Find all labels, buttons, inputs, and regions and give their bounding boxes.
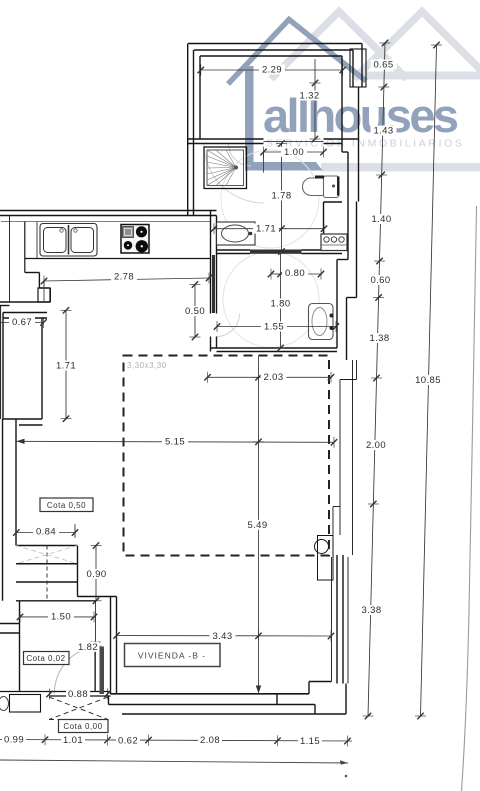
svg-text:10.85: 10.85: [415, 375, 441, 386]
accessibility circle bathroom 1: [221, 150, 319, 248]
door arc bathroom 1: [204, 144, 264, 204]
closet room left wall: [2, 313, 4, 420]
arrowhead 5.49 bottom: [256, 686, 261, 694]
wall step y152: [342, 151, 348, 153]
wall step d: [49, 288, 51, 302]
kitchen wall face line: [9, 216, 11, 303]
bottom wall inner right: [309, 681, 332, 683]
column box: [38, 288, 50, 302]
living right wall line2: [336, 555, 338, 684]
terrace inner top wall: [194, 49, 353, 51]
bath2 right inner wall: [336, 260, 338, 349]
survey dot: [345, 775, 348, 778]
logo light roof A: [271, 12, 407, 80]
washbasin 2 taps: [330, 314, 334, 318]
living room left wall b: [116, 597, 118, 695]
dim chain bottom: [0, 740, 352, 742]
svg-text:3,30x3,30: 3,30x3,30: [127, 361, 167, 370]
entrance dashed X: [49, 697, 108, 720]
dim line 1.71 hall: [214, 228, 324, 230]
terrace right inner wall: [341, 56, 343, 152]
neighbour wc oval: [0, 697, 9, 711]
dim line 2.78: [44, 278, 209, 281]
washbasin 2 counter: [309, 304, 334, 340]
right outer wall upper: [358, 87, 360, 202]
dim line 1.50: [20, 616, 97, 618]
plan left edge line: [0, 305, 2, 419]
shaft box top right: [350, 49, 366, 87]
hall left wall: [19, 601, 21, 692]
terrace outer top wall: [188, 43, 362, 45]
bath left wall corner a: [210, 337, 212, 352]
dim line 1.00: [264, 151, 324, 153]
svg-text:1.82: 1.82: [78, 642, 98, 653]
bath2 top wall left b: [217, 253, 251, 255]
svg-text:Cota 0,02: Cota 0,02: [26, 654, 65, 663]
svg-text:0.99: 0.99: [4, 735, 24, 746]
washbasin 1 cabinet: [217, 222, 256, 245]
Cota 0,50 box: [40, 498, 93, 512]
logo numeral 1 mark: [245, 66, 323, 171]
Cota 0,02 box: [24, 652, 70, 665]
sink divider: [68, 225, 70, 255]
left outer wall: [187, 44, 189, 216]
svg-text:Cota 0,50: Cota 0,50: [47, 501, 86, 510]
svg-text:1.43: 1.43: [373, 126, 393, 137]
svg-text:0.90: 0.90: [86, 569, 106, 580]
svg-text:2.29: 2.29: [262, 65, 282, 76]
entrance door leaf: [100, 647, 105, 695]
bath left wall inner: [216, 216, 218, 314]
logo dark roof: [228, 20, 366, 85]
sink basin right: [71, 228, 94, 253]
boundary arrow line bottom: [0, 760, 348, 763]
stair tread 1: [16, 545, 78, 547]
svg-text:3.43: 3.43: [212, 631, 232, 642]
mid right wall inner2: [332, 507, 334, 557]
bottom step v1: [276, 694, 278, 705]
dim line 2.03: [208, 376, 332, 378]
dim line 1.71 left: [65, 310, 67, 418]
closet room top wall a: [3, 312, 47, 314]
terrace bottom wall right inner: [324, 143, 343, 145]
mid right wall outer: [352, 360, 354, 555]
niche box: [318, 536, 334, 581]
terrace bottom wall left outer: [188, 138, 264, 140]
dimension labels: [2, 60, 443, 748]
terrace inner rail line left: [199, 56, 201, 139]
ticks horizontal dims: [198, 65, 204, 76]
svg-text:0.62: 0.62: [118, 736, 138, 747]
svg-text:1.78: 1.78: [271, 191, 291, 202]
bottom wall step up a: [308, 682, 310, 694]
stair bottom wall: [16, 600, 96, 602]
svg-text:1.00: 1.00: [284, 147, 304, 158]
svg-text:2.78: 2.78: [114, 272, 134, 283]
svg-text:0.60: 0.60: [370, 275, 390, 286]
svg-text:VIVIENDA -B -: VIVIENDA -B -: [138, 651, 206, 661]
stair X dashes: [16, 546, 78, 564]
dim line 5.15: [17, 441, 335, 442]
bath2 bottom wall b: [217, 351, 338, 353]
svg-text:5.49: 5.49: [247, 520, 267, 531]
mid right wall inner: [339, 380, 341, 536]
logo light band lower right: [321, 163, 480, 172]
stair left outer wall: [2, 419, 4, 601]
toilet 1 button: [332, 185, 335, 188]
living right wall line1: [331, 557, 333, 682]
wall step y259: [337, 259, 348, 261]
toilet 1 dark top bar: [315, 176, 324, 179]
terrace right mid wall: [352, 50, 354, 87]
living room left wall a: [110, 597, 112, 695]
kitchen counter back line: [1, 221, 211, 223]
dim line 2.29: [201, 69, 343, 71]
wall step under closet room: [19, 424, 43, 426]
dim line 1.55: [217, 326, 336, 328]
terrace right outer wall: [361, 44, 363, 88]
door arc shower room: [229, 144, 252, 167]
closet room top wall b: [3, 317, 47, 319]
stair tread 2: [16, 563, 78, 565]
closet wall vertical: [323, 202, 325, 234]
dim line 0.50: [194, 285, 196, 338]
svg-text:0.84: 0.84: [36, 527, 56, 538]
door jamb line: [95, 601, 97, 692]
dim line right chain: [368, 43, 385, 716]
svg-text:5.15: 5.15: [165, 437, 185, 448]
svg-text:0.65: 0.65: [373, 60, 393, 71]
svg-text:1.55: 1.55: [264, 322, 284, 333]
svg-text:2.08: 2.08: [200, 735, 220, 746]
stair right edge: [77, 546, 79, 597]
svg-text:1.80: 1.80: [270, 299, 290, 310]
dim line 5.49: [258, 356, 260, 694]
shower tray outer: [204, 147, 247, 189]
niche column circle: [315, 540, 329, 554]
closet room bottom wall: [3, 418, 42, 420]
kitchen top wall inner: [0, 215, 217, 217]
living right wall line4: [347, 557, 349, 684]
dim line 0.90: [95, 546, 97, 601]
door sill thin line: [264, 141, 324, 143]
entrance threshold top: [0, 691, 111, 693]
right inner wall bath1: [347, 152, 349, 260]
svg-text:0.50: 0.50: [185, 306, 205, 317]
dim line 0.80: [271, 273, 321, 275]
kitchen top wall outer: [0, 210, 217, 212]
right outer wall lower: [346, 298, 348, 361]
svg-text:allhouses: allhouses: [263, 89, 458, 142]
watermark logo allhouses: [228, 12, 480, 172]
bottom right corner vertical: [345, 684, 347, 715]
kitchen sink unit: [40, 224, 97, 257]
dim line 1.78-1.80 vertical: [281, 144, 283, 252]
neighbour wall a: [0, 623, 20, 625]
right outer wall mid: [356, 202, 358, 298]
svg-text:3.38: 3.38: [361, 605, 381, 616]
mid right wall step2: [333, 506, 340, 508]
stove burner circles: [136, 226, 147, 237]
dim line 0.84: [16, 532, 75, 534]
wall step c: [39, 287, 50, 289]
dashed square 3.30x3.30: [124, 356, 330, 556]
living right wall line3: [342, 555, 344, 684]
bath2 top wall right a: [302, 249, 343, 251]
wall step a: [25, 272, 40, 274]
wall y302: [0, 301, 50, 303]
VIVIENDA B box: [125, 644, 221, 667]
boundary curve right: [462, 206, 477, 791]
svg-text:0.80: 0.80: [285, 268, 305, 279]
stove burner square: [123, 227, 134, 238]
bottom step v2: [314, 705, 316, 715]
dim line 1.82: [94, 642, 96, 691]
svg-text:2.03: 2.03: [263, 372, 283, 383]
closet room right wall: [41, 318, 43, 419]
bath left wall outer: [210, 211, 212, 314]
neighbour cabinet rect: [10, 695, 41, 713]
stair tread 3: [16, 581, 78, 583]
wall step y297: [347, 297, 357, 299]
bath2 bottom wall a: [211, 347, 338, 349]
shower rays: [207, 150, 236, 186]
terrace bottom wall left inner: [188, 143, 264, 145]
terrace inner rail line top: [200, 55, 342, 57]
sink basin left: [44, 228, 67, 253]
bottom outer line 3: [122, 713, 346, 715]
kitchen counter front: [25, 258, 211, 260]
logo light roof B: [354, 12, 480, 80]
Cota 0,00 box: [59, 720, 109, 733]
living room bottom wall main: [111, 693, 310, 695]
bottom outer line 2: [109, 704, 316, 706]
closet wall under toilet: [324, 201, 343, 203]
washbasin 1 tap: [249, 232, 253, 236]
kitchen cabinet left edge: [24, 222, 26, 273]
svg-text:1.15: 1.15: [300, 736, 320, 747]
toilet 1 tank: [324, 176, 339, 198]
washbasin 2 bowl: [312, 308, 327, 336]
svg-text:1.32: 1.32: [299, 91, 319, 102]
svg-text:1.01: 1.01: [63, 735, 83, 746]
stove unit: [121, 225, 149, 254]
left inner wall: [193, 50, 195, 216]
svg-text:0.88: 0.88: [68, 689, 88, 700]
svg-text:1.50: 1.50: [51, 612, 71, 623]
bath2 door sill dark: [250, 250, 302, 254]
stair centerline dashed: [46, 546, 48, 601]
arrowhead 5.15 left: [17, 439, 25, 444]
terrace bottom wall right outer: [324, 138, 359, 140]
wall step b: [38, 273, 40, 289]
appliance box: [321, 234, 347, 251]
bath2 top wall right b: [302, 253, 343, 255]
shower drain dot: [234, 166, 238, 170]
neighbour wall b: [0, 632, 20, 634]
sink taps: [60, 229, 63, 232]
toilet 1 dark right bar: [337, 177, 340, 196]
kitchen cabinet divider: [36, 222, 38, 259]
bottom small step: [108, 696, 110, 705]
svg-text:2.00: 2.00: [366, 440, 386, 451]
svg-text:1.38: 1.38: [369, 333, 389, 344]
svg-text:1.71: 1.71: [256, 224, 276, 235]
dim line 0.67: [0, 322, 44, 324]
bath2 top wall left a: [217, 249, 251, 251]
appliance knobs: [324, 237, 329, 242]
dim line 1.32: [314, 59, 316, 139]
bath left wall fill: [212, 255, 215, 313]
bath left wall corner b: [216, 337, 218, 349]
mid right wall step: [340, 379, 357, 381]
svg-text:0.67: 0.67: [12, 317, 32, 328]
logo light band top right: [362, 72, 480, 80]
accessibility circle bathroom 2: [223, 252, 319, 348]
mid right wall outer stub: [356, 360, 358, 380]
stair left inner wall: [15, 419, 17, 546]
ticks vertical dims: [310, 80, 321, 86]
appliance inner line: [321, 244, 347, 246]
svg-text:Cota 0,00: Cota 0,00: [63, 722, 102, 731]
svg-text:1.71: 1.71: [56, 361, 76, 372]
dim line 10.85: [421, 45, 437, 716]
washbasin 1 bowl: [222, 225, 249, 242]
toilet 1 bowl: [303, 178, 331, 196]
wall step stairs to living: [78, 596, 117, 598]
wall y305: [0, 305, 10, 307]
entrance threshold bottom: [49, 695, 111, 697]
svg-text:1.40: 1.40: [371, 214, 391, 225]
dim line 3.43: [117, 635, 332, 638]
entrance door arc: [54, 646, 102, 694]
shower tray inner: [207, 150, 244, 186]
door arc bathroom 2: [217, 314, 240, 337]
